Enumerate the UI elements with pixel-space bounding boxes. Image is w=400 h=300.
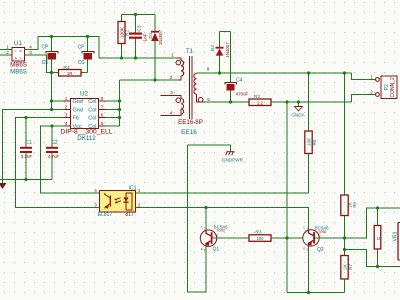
wire rail B opto pin2 to Q2 collector — [136, 208, 309, 231]
svg-text:100: 100 — [257, 236, 265, 241]
wire C1 C2 ground rail to left edge — [0, 179, 52, 181]
wire clamp top rail — [122, 14, 156, 16]
core — [189, 56, 191, 119]
junction gnd at pin2 — [50, 108, 53, 111]
svg-text:4: 4 — [94, 188, 97, 193]
trimmer VR1 clipped at right edge — [393, 223, 400, 261]
svg-text:D2: D2 — [210, 45, 216, 51]
svg-text:R3: R3 — [255, 230, 261, 236]
svg-text:470uF: 470uF — [236, 92, 249, 97]
transistor Q1 BC546 — [200, 208, 249, 253]
resistor R6 upper right column — [341, 73, 357, 238]
svg-text:1K: 1K — [377, 236, 384, 241]
svg-text:1N4007: 1N4007 — [225, 42, 230, 58]
wire rail1 pin8 net — [197, 72, 352, 74]
svg-text:C5: C5 — [42, 60, 49, 66]
junction Q1 collector on rail B — [204, 206, 207, 209]
capacitor C5 — [42, 37, 58, 73]
wire GNDPWR column down and bottom left rail — [188, 145, 207, 292]
svg-text:8: 8 — [207, 67, 210, 72]
svg-text:Col: Col — [88, 116, 96, 122]
ground symbol GNDPWR — [222, 152, 244, 163]
svg-text:1: 1 — [171, 53, 174, 58]
wire U2 Col pins to drain column — [107, 100, 120, 102]
svg-text:2: 2 — [6, 50, 9, 55]
wire wiper net from Q2 base junction up to VR1 top wire — [345, 208, 400, 238]
svg-text:C1: C1 — [25, 140, 32, 146]
junction R6 top on rail1 — [343, 71, 346, 74]
bridge rectifier U1 — [6, 40, 32, 76]
svg-text:5: 5 — [207, 97, 210, 102]
junction top rail at C5 — [50, 35, 53, 38]
capacitor C1 — [20, 118, 32, 180]
junction gnd at pin1 — [50, 99, 53, 102]
svg-text:VR1: VR1 — [393, 231, 399, 241]
svg-text:817: 817 — [125, 212, 134, 218]
primary winding 1-2 — [178, 58, 184, 80]
junction Q2 emitter on bottom rail — [307, 291, 310, 294]
svg-text:7: 7 — [101, 105, 104, 110]
svg-text:Q2: Q2 — [317, 247, 324, 253]
wire U2 pin1 to gnd column — [52, 100, 64, 102]
svg-text:TO92: TO92 — [217, 229, 226, 233]
svg-text:4: 4 — [29, 45, 32, 50]
wire pin1 rail (V+) to transformer — [99, 57, 178, 59]
svg-text:1R: 1R — [67, 71, 72, 76]
wire rail2 pin5 net left part — [203, 101, 249, 103]
svg-text:C3: C3 — [137, 25, 143, 31]
svg-text:⊳: ⊳ — [20, 49, 23, 53]
wire U2 pin4 Vcc net down to optocoupler pin4 — [41, 126, 100, 193]
svg-text:2.2: 2.2 — [257, 100, 263, 105]
capacitor C3 — [129, 15, 149, 59]
wire U1 pin3 down to bottom rail — [25, 55, 59, 73]
junction branch to VR1 bottom — [343, 248, 346, 251]
resistor R7 lower right column — [341, 256, 353, 293]
svg-text:E: E — [303, 247, 305, 251]
junction D2 bottom on rail1 — [218, 71, 221, 74]
svg-text:MB6S: MB6S — [10, 69, 27, 76]
svg-text:C6: C6 — [78, 60, 85, 66]
svg-text:Gnd: Gnd — [73, 108, 83, 114]
svg-text:4: 4 — [170, 111, 173, 116]
wire drain column — [119, 80, 121, 126]
wire Q2 emitter down to bottom rail — [308, 246, 310, 293]
junction C2 top on Vcc wire — [50, 124, 53, 127]
resistor R1 100K — [118, 15, 131, 59]
junction top rail at C6 — [86, 35, 89, 38]
secondary winding 8-5 — [196, 73, 198, 99]
svg-text:3: 3 — [29, 50, 32, 55]
svg-text:Col: Col — [88, 108, 96, 114]
svg-text:Col: Col — [88, 99, 96, 105]
svg-text:⊳: ⊳ — [15, 57, 18, 61]
svg-text:1: 1 — [138, 188, 141, 193]
phototransistor inside — [109, 196, 111, 207]
svg-text:DK112: DK112 — [77, 135, 96, 142]
svg-text:100K: 100K — [119, 26, 125, 38]
capacitor C6 — [78, 37, 94, 73]
wire GNDPWR net — [188, 145, 231, 152]
wire lower branch to VR1 bottom wire — [345, 250, 400, 267]
svg-text:1: 1 — [370, 75, 373, 80]
junction GNDA on rail2 — [297, 100, 300, 103]
svg-text:10K: 10K — [306, 137, 311, 146]
wire column to lower resistor — [344, 238, 346, 256]
node: bottom rail right of R4 — [81, 72, 88, 74]
wire U1 pin2 from left edge — [0, 54, 12, 56]
svg-text:EE16-8P: EE16-8P — [178, 119, 203, 126]
svg-text:R5: R5 — [312, 139, 317, 145]
svg-text:1: 1 — [6, 45, 9, 50]
diode D1 1N4007 — [148, 15, 163, 81]
svg-text:GNDA: GNDA — [291, 113, 305, 118]
svg-text:4.7uF: 4.7uF — [48, 154, 60, 159]
svg-text:C4: C4 — [236, 78, 243, 84]
junction C4 bottom on rail2 — [229, 100, 232, 103]
svg-text:5: 5 — [101, 121, 104, 126]
transformer T1 EE16-8P — [161, 48, 211, 136]
svg-text:GNDPWR: GNDPWR — [222, 158, 244, 163]
svg-text:E: E — [201, 247, 203, 251]
svg-text:2: 2 — [370, 90, 373, 95]
junction R8 bottom — [376, 265, 379, 268]
wire rail A opto pin1 to feedback resistor — [136, 192, 309, 194]
svg-text:4: 4 — [65, 121, 68, 126]
junction R3 net on output divider column — [285, 236, 288, 239]
IC U2 DK112 DIP-8 — [60, 91, 112, 143]
aux winding 3-4 — [161, 96, 182, 116]
svg-text:Fb: Fb — [73, 116, 79, 122]
resistor R3 — [249, 230, 271, 242]
diode D2 1N4007 — [210, 32, 230, 74]
svg-text:CP: CP — [42, 45, 50, 51]
svg-text:2K: 2K — [342, 263, 347, 270]
wire U1 pin1 from left edge — [0, 49, 12, 51]
svg-text:R2: R2 — [254, 94, 260, 100]
junction drain col pin6 — [118, 116, 121, 119]
svg-text:1: 1 — [65, 96, 68, 101]
wire bottom right rail — [287, 292, 345, 294]
LED inside — [125, 193, 127, 198]
light arrows — [115, 198, 121, 200]
svg-text:EE16: EE16 — [181, 129, 197, 136]
resistor R4 — [59, 65, 82, 76]
svg-text:3: 3 — [65, 113, 68, 118]
svg-text:Q1: Q1 — [213, 247, 220, 253]
wire U2 pin2 gnd to left edge and down to GND symbol — [3, 110, 64, 184]
capacitor C2 — [46, 126, 59, 180]
svg-text:2: 2 — [138, 203, 141, 208]
svg-text:R7: R7 — [348, 264, 353, 270]
junction R1 bottom on pin1 rail — [120, 56, 123, 59]
transistor Q2 BC546 — [303, 225, 345, 253]
svg-text:IC1: IC1 — [128, 186, 136, 192]
resistor R2 — [249, 94, 271, 106]
junction drain col pin7 — [118, 108, 121, 111]
svg-text:2: 2 — [170, 75, 173, 80]
svg-text:U1: U1 — [14, 40, 22, 47]
junction C3 bottom on pin1 rail — [134, 56, 137, 59]
capacitor C4 470uF — [225, 32, 249, 103]
svg-text:8: 8 — [101, 96, 104, 101]
svg-text:1nF: 1nF — [143, 33, 149, 41]
junction C3 top on clamp rail — [134, 13, 137, 16]
wire R3 to mid column — [271, 237, 303, 239]
svg-text:CONN_2: CONN_2 — [390, 77, 396, 98]
junction R5 top on rail1 — [307, 71, 310, 74]
ground symbol GND (clipped at left edge) — [0, 183, 7, 189]
resistor R8 right — [374, 208, 383, 267]
wire rail2 pin5 net right part — [271, 101, 352, 103]
svg-text:3: 3 — [94, 203, 97, 208]
svg-text:MB6S: MB6S — [10, 62, 27, 69]
svg-text:2: 2 — [65, 105, 68, 110]
junction C1 bottom on gnd rail — [24, 178, 27, 181]
junction Q2 base cross — [343, 236, 346, 239]
svg-text:D1: D1 — [148, 32, 154, 38]
svg-text:T1: T1 — [186, 48, 194, 55]
svg-text:Gnd: Gnd — [73, 99, 83, 105]
junction R8 top — [376, 206, 379, 209]
connector P2 CONN_2 — [352, 73, 398, 102]
junction divider column on rail2 — [285, 100, 288, 103]
svg-text:6: 6 — [101, 113, 104, 118]
wire drain rail to transformer pin2 — [120, 79, 178, 81]
svg-text:C2: C2 — [51, 140, 58, 146]
wire U2 pin3 Fb net down to optocoupler pin3 — [16, 118, 100, 208]
junction bottom rail at C5 / gnd drop — [50, 71, 53, 74]
wire output divider column x287 — [286, 102, 288, 293]
svg-text:3: 3 — [170, 90, 173, 95]
ground symbol GNDA — [291, 102, 305, 118]
junction C1 top on Fb wire — [24, 116, 27, 119]
junction drain col pin8 — [118, 99, 121, 102]
wire gnd drop C5 to U2 pins 1,2 — [51, 73, 53, 110]
svg-text:R6: R6 — [352, 202, 357, 208]
svg-text:EL817: EL817 — [98, 212, 113, 218]
svg-text:U2: U2 — [80, 91, 88, 98]
optocoupler IC1 EL817 — [94, 186, 141, 219]
wire snubber top loop — [220, 31, 231, 33]
svg-text:≈: ≈ — [15, 49, 17, 53]
svg-text:1N4007: 1N4007 — [158, 29, 163, 45]
svg-text:CP: CP — [78, 45, 86, 51]
svg-text:3.3nF: 3.3nF — [21, 154, 33, 159]
junction D1 anode / drain wire — [153, 78, 156, 81]
resistor R5 10K feed from rail1 — [305, 73, 317, 193]
wire U1 pin4 to top rail — [25, 37, 100, 59]
